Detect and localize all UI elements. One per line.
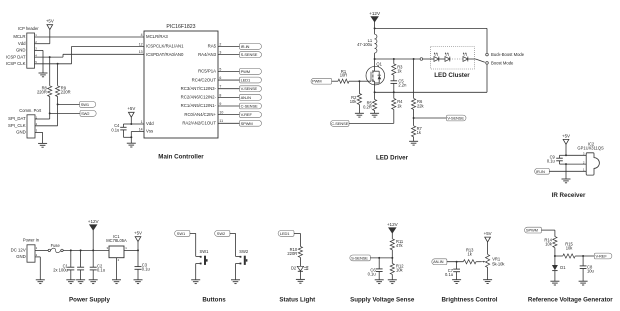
node D1/R15 junction	[554, 255, 556, 257]
svg-text:220R: 220R	[37, 90, 47, 95]
svg-text:Buck-Boost Mode: Buck-Boost Mode	[491, 52, 525, 57]
net flag S-SENSE (sense)	[350, 255, 370, 261]
svg-text:AN-IN: AN-IN	[433, 259, 444, 264]
ground (R2)	[355, 113, 364, 117]
IC IC2 GP1UX311QS IR receiver module	[577, 141, 604, 175]
svg-text:10: 10	[219, 111, 223, 115]
resistor R9 220R	[56, 64, 71, 105]
capacitor C9 0.1u	[547, 155, 566, 165]
net flag SW2	[80, 111, 96, 117]
power +5V (PIC Vdd)	[127, 106, 135, 117]
svg-text:+5V: +5V	[134, 231, 142, 236]
svg-text:13: 13	[139, 50, 143, 54]
svg-text:D1: D1	[560, 265, 566, 270]
wire GND down	[35, 257, 40, 280]
capacitor C4 0.1u	[111, 123, 131, 137]
wire IC1 out	[124, 249, 138, 251]
svg-text:+12V: +12V	[387, 222, 399, 227]
svg-text:3: 3	[219, 51, 221, 55]
capacitor C7 0.1u	[445, 262, 460, 280]
svg-text:10u: 10u	[587, 268, 594, 273]
resistor R15 10k	[555, 242, 583, 259]
wire ICSP DAT to PIC pin 13	[35, 54, 145, 57]
ground (power in)	[36, 280, 45, 284]
net flag V-SENSE (PIC pin 7)	[240, 86, 262, 92]
node ICSP DAT / R8	[49, 56, 51, 58]
svg-text:C-SENSE: C-SENSE	[331, 121, 348, 126]
node Vdd junction	[130, 123, 132, 125]
wire LED1 to R10	[294, 233, 300, 246]
node R11/R12 junction	[391, 257, 393, 259]
resistor R12 10k	[390, 258, 404, 280]
wire Vss	[131, 132, 144, 144]
node +12V tap	[92, 249, 94, 251]
svg-text:22k: 22k	[417, 103, 425, 108]
resistor R5 0.2R	[363, 92, 377, 113]
resistor R7 1k	[412, 118, 423, 141]
wire PIC pin 10	[218, 114, 240, 116]
ground (R7)	[409, 141, 418, 145]
power +12V (sense)	[387, 222, 399, 233]
svg-text:SW1: SW1	[177, 231, 186, 236]
wire PIC pin 7	[218, 88, 240, 90]
ground (IC1)	[112, 280, 121, 284]
wire SPI_DAT	[35, 113, 50, 119]
wire +12V to R11	[391, 233, 393, 239]
wire gate	[359, 80, 371, 82]
wire to SW1 flag	[58, 103, 80, 105]
resistor R13 1k	[463, 248, 476, 264]
svg-text:RC0/AN4/C2IN+: RC0/AN4/C2IN+	[184, 112, 216, 117]
node C6 junction	[378, 257, 380, 259]
section title IR Receiver	[552, 192, 586, 199]
terminal Buck-Boost Mode	[486, 52, 525, 57]
svg-text:6: 6	[219, 76, 221, 80]
svg-text:RC5/P1A: RC5/P1A	[198, 69, 216, 74]
wire PIC pin 3	[218, 54, 240, 56]
net flag AN-IN (brightness)	[432, 259, 447, 265]
node IR gnd junction	[565, 163, 567, 165]
svg-text:Brightness Control: Brightness Control	[441, 296, 497, 303]
ground (C6)	[375, 280, 384, 284]
svg-text:Status Light: Status Light	[279, 296, 315, 303]
svg-text:RC4/C2OUT: RC4/C2OUT	[192, 77, 217, 82]
wire SW2 flag to switch	[230, 232, 236, 234]
power +12V (power supply)	[88, 219, 100, 250]
node C8 junction	[582, 255, 584, 257]
svg-text:10k: 10k	[396, 267, 404, 272]
ground (PIC Vss)	[127, 143, 136, 147]
wire pin3	[566, 154, 586, 156]
svg-text:0.1u: 0.1u	[97, 268, 105, 273]
ground (VR1)	[483, 280, 492, 284]
svg-text:GND: GND	[16, 48, 26, 53]
net flag C-SENSE (PIC pin 9)	[240, 103, 262, 109]
svg-text:ICSP CLK: ICSP CLK	[6, 61, 26, 66]
svg-text:1: 1	[141, 120, 143, 124]
power +5V (IR receiver)	[562, 133, 570, 144]
wire dotted continuation	[450, 58, 463, 60]
svg-text:9: 9	[219, 102, 221, 106]
fuse F1	[48, 243, 63, 253]
svg-text:Fuse: Fuse	[51, 243, 61, 248]
LED D4 (cluster)	[445, 53, 450, 62]
svg-text:0.2R: 0.2R	[363, 105, 372, 110]
net flag V-SENSE	[447, 115, 467, 121]
svg-text:Reference Voltage Generator: Reference Voltage Generator	[528, 296, 613, 303]
svg-text:Boost Mode: Boost Mode	[491, 60, 514, 65]
svg-text:220R: 220R	[61, 90, 71, 95]
capacitor C6 0.1u	[368, 258, 383, 280]
svg-text:5k-10k: 5k-10k	[492, 261, 505, 266]
ground (R12)	[388, 280, 397, 284]
svg-text:RA4/AN3: RA4/AN3	[198, 52, 217, 57]
svg-text:IR Receiver: IR Receiver	[552, 192, 586, 199]
svg-text:SW1: SW1	[81, 102, 90, 107]
ground (IR receiver)	[562, 179, 571, 183]
svg-text:SW2: SW2	[81, 111, 90, 116]
svg-text:C-SENSE: C-SENSE	[241, 103, 258, 108]
node V-SENSE junction	[413, 117, 415, 119]
net flag V-REF (PIC pin 10)	[240, 112, 262, 118]
svg-text:220R: 220R	[287, 251, 297, 256]
svg-text:SW2: SW2	[217, 231, 226, 236]
wire PIC pin 6	[218, 79, 240, 81]
wire main 12V rail	[63, 249, 109, 251]
wire pin2 to ground	[566, 164, 586, 179]
svg-text:Main Controller: Main Controller	[158, 154, 204, 161]
wire AN-IN to R13	[447, 261, 463, 263]
inductor L1 47-100u	[357, 28, 377, 59]
resistor R10 220R	[287, 246, 302, 266]
svg-text:MCLR: MCLR	[13, 34, 25, 39]
net flag V-REF (refgen)	[594, 253, 612, 259]
wire +12V rail to buck-boost switch	[375, 28, 487, 53]
svg-text:10R: 10R	[340, 73, 348, 78]
capacitor C5 2.2n	[391, 78, 408, 92]
node IR Vcc junction	[565, 154, 567, 156]
svg-text:PWM: PWM	[312, 79, 321, 84]
node R6 top	[413, 58, 415, 60]
net flag LED1 (PIC pin 6)	[240, 77, 262, 83]
svg-text:10k: 10k	[350, 99, 358, 104]
section title Supply Voltage Sense	[350, 296, 415, 303]
net flag S-SENSE (PIC pin 3)	[240, 52, 262, 58]
wire to V-REF	[583, 255, 594, 257]
wire Vdd	[131, 117, 144, 124]
IC IC1 MC78L05A regulator	[106, 234, 127, 262]
wire PIC pin 8	[218, 96, 240, 98]
connector J2 Comm. Port	[8, 108, 42, 138]
net flag LED1 (status)	[278, 231, 294, 237]
power +5V (ICP header)	[46, 19, 54, 30]
wire MCLR to PIC pin 4	[35, 36, 145, 38]
transistor Q1 N-MOSFET	[366, 59, 385, 92]
connector J3 Power In	[11, 238, 40, 263]
svg-text:V-SENSE: V-SENSE	[447, 115, 464, 120]
svg-text:IR-IN: IR-IN	[241, 44, 250, 49]
svg-text:Power In: Power In	[23, 238, 40, 243]
section title LED Driver	[376, 154, 409, 161]
net flag AN-IN (PIC pin 8)	[240, 94, 262, 100]
LED D5 (cluster)	[463, 53, 468, 62]
label LED Cluster	[434, 72, 470, 79]
section title Reference Voltage Generator	[528, 296, 613, 303]
svg-text:2.2n: 2.2n	[398, 82, 407, 87]
svg-text:S-SENSE: S-SENSE	[351, 255, 368, 260]
svg-text:Buttons: Buttons	[202, 296, 226, 303]
svg-text:ICP header: ICP header	[18, 26, 39, 31]
net flag SPWM (PIC pin 11)	[240, 120, 262, 126]
svg-text:PWM: PWM	[241, 69, 250, 74]
wire cluster cathode to switch	[468, 59, 485, 62]
svg-text:V-SENSE: V-SENSE	[241, 86, 258, 91]
svg-text:10k: 10k	[566, 246, 574, 251]
wire anode into cluster	[423, 58, 434, 60]
ground (ICP pin 3)	[35, 50, 48, 76]
wire PIC pin 11	[218, 122, 240, 124]
wire source rail	[375, 64, 487, 92]
svg-text:DC 12V: DC 12V	[11, 247, 26, 252]
capacitor C1 2x 100u (b)	[53, 250, 84, 279]
svg-text:ICSP DAT: ICSP DAT	[6, 54, 26, 59]
power +5V (regulator out)	[134, 231, 142, 251]
svg-text:GP1UX311QS: GP1UX311QS	[577, 146, 604, 151]
svg-text:ICSPCLK/RA1/AN1: ICSPCLK/RA1/AN1	[146, 44, 184, 49]
svg-text:AN-IN: AN-IN	[241, 95, 252, 100]
wire PIC pin 2	[218, 45, 240, 47]
svg-text:47-100u: 47-100u	[357, 42, 372, 47]
svg-text:2: 2	[219, 42, 221, 46]
svg-text:RA2/AN2/C1OUT: RA2/AN2/C1OUT	[182, 121, 216, 126]
section title Brightness Control	[441, 296, 497, 303]
section title Power Supply	[69, 296, 110, 303]
section title Main Controller	[158, 154, 204, 161]
capacitor C3 0.1u	[135, 250, 150, 279]
terminal Boost Mode	[486, 60, 514, 65]
svg-text:SW2: SW2	[239, 249, 249, 254]
net flag PWM (PIC pin 5)	[240, 69, 262, 75]
svg-text:2x 100u: 2x 100u	[53, 268, 68, 273]
ground (C8)	[579, 281, 588, 285]
node SW1 junction	[57, 103, 59, 105]
svg-text:Vdd: Vdd	[146, 121, 154, 126]
svg-text:LED Cluster: LED Cluster	[434, 72, 470, 79]
node gate junction	[358, 80, 360, 82]
node source rail left	[374, 91, 376, 93]
node +12V rail junction	[374, 27, 376, 29]
svg-text:7: 7	[219, 85, 221, 89]
wire PIC pin 5	[218, 70, 240, 72]
wire to SW2 flag	[50, 112, 80, 114]
resistor R3 1k	[392, 59, 403, 81]
svg-text:LED Driver: LED Driver	[376, 154, 409, 161]
ground (SW1)	[191, 280, 200, 284]
net flag SW1 (button)	[175, 231, 190, 237]
wire +5V to pin3	[565, 144, 567, 155]
svg-text:Vss: Vss	[146, 129, 153, 134]
resistor R1 10R	[332, 69, 360, 84]
section title Status Light	[279, 296, 315, 303]
svg-text:11: 11	[219, 119, 223, 123]
ground (C2)	[89, 280, 98, 284]
svg-text:+5V: +5V	[127, 106, 135, 111]
ground (C3)	[134, 280, 143, 284]
svg-text:Power Supply: Power Supply	[69, 296, 110, 303]
wire PIC pin 9	[218, 105, 240, 107]
diode D1	[552, 256, 566, 281]
ground (C1a)	[66, 280, 75, 284]
svg-text:RC1/AN5/C12IN1-: RC1/AN5/C12IN1-	[181, 103, 217, 108]
svg-text:GND: GND	[16, 254, 26, 259]
svg-text:4: 4	[141, 33, 143, 37]
svg-text:10k: 10k	[545, 242, 553, 247]
resistor R8 220R	[37, 57, 52, 113]
svg-text:Comm. Port: Comm. Port	[19, 108, 42, 113]
svg-text:+12V: +12V	[88, 219, 100, 224]
svg-text:+5V: +5V	[484, 231, 492, 236]
capacitor C1 2x 100u (a)	[67, 250, 74, 279]
wire SPI_CLK	[35, 104, 58, 125]
LED D2 status	[291, 265, 308, 279]
capacitor C8 10u	[580, 256, 594, 281]
svg-text:RC3/AN7/C12IN3-: RC3/AN7/C12IN3-	[181, 86, 217, 91]
resistor R11 47k	[390, 239, 404, 258]
svg-text:ICSPDAT/RA0/AN0: ICSPDAT/RA0/AN0	[146, 52, 184, 57]
wire	[439, 58, 445, 60]
svg-text:SPWM: SPWM	[241, 121, 253, 126]
svg-text:S-SENSE: S-SENSE	[241, 52, 258, 57]
node Vss junction	[130, 136, 132, 138]
svg-text:0.1u: 0.1u	[368, 271, 376, 276]
node C7 junction	[456, 261, 458, 263]
svg-text:SW1: SW1	[200, 249, 210, 254]
node +5V tap	[137, 249, 139, 251]
resistor R6 22k	[412, 59, 425, 118]
ground (SW2)	[231, 280, 240, 284]
node ICSP CLK / R9	[57, 63, 59, 65]
net flag PWM (gate input)	[311, 78, 332, 84]
svg-text:LED1: LED1	[241, 78, 251, 83]
resistor R4 1k	[392, 92, 403, 123]
svg-text:LED1: LED1	[280, 231, 290, 236]
svg-text:PIC16F1823: PIC16F1823	[166, 24, 195, 30]
svg-text:SPI_DAT: SPI_DAT	[8, 116, 26, 121]
ground (C7)	[452, 280, 461, 284]
svg-text:MC78L05A: MC78L05A	[106, 238, 127, 243]
node LED cluster anode terminal	[420, 58, 423, 61]
net flag IR-IN (PIC pin 2)	[240, 44, 262, 50]
LED D3 (cluster)	[434, 53, 439, 62]
svg-text:V-REF: V-REF	[596, 253, 608, 258]
wire +12V to L1	[374, 22, 376, 29]
svg-text:SPWM: SPWM	[526, 228, 538, 233]
wire drain rail	[375, 58, 421, 60]
svg-text:0.1u: 0.1u	[445, 272, 453, 277]
resistor R14 10k	[544, 237, 557, 256]
svg-text:RC2/AN6/C12IN2-: RC2/AN6/C12IN2-	[181, 95, 217, 100]
svg-text:12: 12	[139, 42, 143, 46]
switch SW1 pushbutton	[196, 233, 209, 279]
potentiometer VR1 5k-10k	[482, 231, 506, 280]
wire pin1	[549, 170, 586, 172]
connector J1 ICP header	[6, 26, 39, 68]
node drain rail left	[374, 58, 376, 60]
ground (D1)	[550, 281, 559, 285]
svg-text:14: 14	[139, 127, 143, 131]
wire to V-SENSE flag	[414, 117, 447, 119]
svg-text:D2: D2	[291, 265, 297, 270]
wire ICSP CLK to PIC pin 12	[35, 46, 145, 63]
svg-text:MCLR/RA3: MCLR/RA3	[146, 34, 168, 39]
net flag SW1	[80, 102, 96, 108]
node C1b	[80, 249, 82, 251]
ground (D2)	[296, 279, 305, 283]
LED cluster dashed box	[431, 47, 475, 69]
node C5/R4 junction	[393, 91, 395, 93]
wire IC1 gnd	[116, 258, 118, 280]
capacitor C2 0.1u	[90, 250, 105, 279]
svg-text:SPI_CLK: SPI_CLK	[8, 123, 26, 128]
net flag C-SENSE (current sense)	[330, 121, 349, 127]
svg-text:Vdd: Vdd	[18, 41, 26, 46]
wire to fuse	[35, 249, 48, 251]
section title Buttons	[202, 296, 226, 303]
node R3 top	[393, 58, 395, 60]
svg-text:0.1u: 0.1u	[547, 159, 555, 164]
node SW2 junction	[49, 112, 51, 114]
resistor R2 10k	[350, 81, 362, 113]
wire S-SENSE	[370, 257, 392, 259]
power +12V (LED driver)	[369, 11, 381, 22]
svg-text:+12V: +12V	[369, 11, 381, 16]
wire +5V to ICP Vdd	[35, 30, 50, 44]
svg-text:5: 5	[219, 67, 221, 71]
svg-text:RA5: RA5	[208, 44, 217, 49]
node C1a	[70, 249, 72, 251]
svg-text:IR-IN: IR-IN	[536, 169, 545, 174]
wire SW1 flag to switch	[190, 232, 196, 234]
svg-text:8: 8	[219, 93, 221, 97]
switch SW2 pushbutton	[236, 233, 249, 279]
ground (C1b)	[76, 280, 85, 284]
svg-text:V-REF: V-REF	[241, 112, 253, 117]
net flag SW2 (button)	[215, 231, 230, 237]
net flag SPWM (refgen)	[525, 227, 542, 233]
ground (Comm port pin 3)	[35, 132, 47, 147]
svg-text:Q1: Q1	[376, 61, 382, 66]
svg-text:GND: GND	[16, 130, 26, 135]
svg-text:47k: 47k	[396, 243, 404, 248]
wire SPWM to R14	[541, 230, 555, 237]
svg-text:0.1u: 0.1u	[111, 127, 119, 132]
svg-text:+5V: +5V	[46, 19, 54, 24]
ground (R5)	[370, 113, 379, 117]
wire to C-SENSE	[349, 122, 394, 124]
IC U1 PIC16F1823 main controller	[139, 24, 224, 138]
svg-text:Supply Voltage Sense: Supply Voltage Sense	[350, 296, 415, 303]
svg-text:+5V: +5V	[562, 133, 570, 138]
svg-text:0.1u: 0.1u	[142, 267, 150, 272]
net flag IR-IN (receiver out)	[535, 168, 550, 174]
wire wiper	[476, 261, 482, 263]
